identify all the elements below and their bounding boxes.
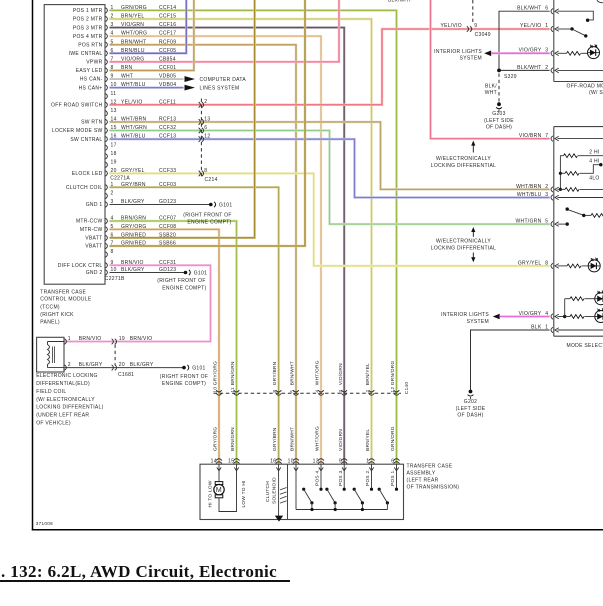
svg-text:8: 8 [204, 168, 207, 174]
svg-text:WHT: WHT [485, 90, 497, 96]
svg-text:20: 20 [119, 362, 125, 368]
wire CCF33 GRY/YEL pin20 to mode select switch pin8 [110, 173, 550, 265]
svg-text:1: 1 [68, 336, 71, 342]
svg-text:GRY/ORG: GRY/ORG [213, 361, 219, 385]
mode select pin1 internal wire [558, 329, 603, 331]
svg-text:G101: G101 [192, 365, 205, 371]
svg-text:GRN/ORG: GRN/ORG [390, 426, 396, 451]
svg-text:C214: C214 [205, 177, 218, 183]
svg-text:SW CNTRAL: SW CNTRAL [70, 137, 102, 143]
wire SSB20 GRN/RED pinB6 VBATT (off page top) [110, 0, 255, 238]
interior lights arrow (off-road) [434, 49, 491, 62]
svg-text:VIO/GRN: VIO/GRN [338, 363, 344, 385]
svg-text:2: 2 [204, 99, 207, 105]
svg-text:POS 1 MTR: POS 1 MTR [73, 8, 103, 14]
svg-text:19: 19 [111, 159, 117, 165]
svg-text:HI TO LOW: HI TO LOW [208, 480, 214, 507]
wire CCF03 GRY/BRN pinB1 to clutch solenoid [110, 187, 279, 464]
svg-text:OFF-ROAD MODE SWITCH: OFF-ROAD MODE SWITCH [567, 84, 603, 90]
svg-text:S329: S329 [504, 74, 517, 80]
position switch labels [315, 469, 397, 486]
wire BLK/WHT off-road pin6 [499, 11, 550, 70]
svg-text:ENGINE COMPT): ENGINE COMPT) [187, 220, 231, 226]
mode select switch box [554, 127, 603, 337]
mode select pin8 LED [588, 258, 600, 272]
motor label LOW TO HI [241, 480, 247, 507]
svg-text:12: 12 [390, 387, 396, 393]
svg-text:POS 3 MTR: POS 3 MTR [73, 25, 103, 31]
mode select pin3 internal wire [558, 197, 603, 199]
svg-text:VIO/GRN: VIO/GRN [338, 429, 344, 451]
svg-text:BRN/GRN: BRN/GRN [230, 427, 236, 451]
svg-text:TRANSFER CASE: TRANSFER CASE [407, 463, 453, 469]
svg-text:GRY/BRN: GRY/BRN [272, 427, 278, 451]
mode select rotary lever [566, 207, 603, 217]
connector C3049 [467, 0, 491, 38]
off-road switch illumination LED [588, 44, 600, 58]
svg-text:BLK: BLK [531, 324, 542, 330]
svg-text:13: 13 [204, 116, 210, 122]
ground G101 (first) [209, 202, 232, 209]
svg-text:MTR-CCW: MTR-CCW [76, 219, 103, 225]
TCCM connector C2271B pins and labels [58, 182, 177, 276]
off-road switch pin labels [517, 6, 548, 71]
svg-text:2: 2 [545, 65, 548, 71]
svg-text:ENGINE COMPT): ENGINE COMPT) [162, 285, 206, 291]
svg-text:BRN/WHT: BRN/WHT [290, 427, 296, 451]
clipped wire label at top edge [388, 0, 411, 4]
svg-text:C1681: C1681 [118, 372, 134, 378]
svg-text:(TCCM): (TCCM) [40, 305, 60, 311]
svg-text:17: 17 [111, 142, 117, 148]
mode select switch pin brackets [551, 136, 559, 333]
svg-text:COMPUTER DATA: COMPUTER DATA [200, 77, 247, 83]
svg-text:8: 8 [272, 390, 278, 393]
mode select pin8 LED resistor [558, 264, 589, 268]
svg-text:(LEFT SIDE: (LEFT SIDE [484, 118, 514, 124]
mode select pin4 wiring [558, 297, 595, 319]
svg-text:(RIGHT KICK: (RIGHT KICK [40, 312, 74, 318]
wire VIO/GRY off-road pin3 [491, 52, 549, 55]
svg-text:DIFFERENTIAL(ELD): DIFFERENTIAL(ELD) [36, 381, 90, 387]
svg-text:LOCKING DIFFERENTIAL: LOCKING DIFFERENTIAL [431, 246, 496, 252]
svg-text:POS 2 MTR: POS 2 MTR [73, 17, 103, 23]
svg-text:PANEL): PANEL) [40, 319, 60, 325]
svg-text:13: 13 [111, 108, 117, 114]
svg-text:VBATT: VBATT [85, 244, 102, 250]
svg-text:C2271A: C2271A [110, 176, 130, 182]
C140 lower wire labels and pins [211, 426, 396, 464]
off-road mode switch box [554, 0, 603, 82]
svg-text:VPWR: VPWR [86, 60, 102, 66]
off-road switch pin6 internal wire [558, 11, 594, 22]
svg-text:ASSEMBLY: ASSEMBLY [407, 470, 436, 476]
wire CCF15 BRN/YEL pin2 to transfer case pin1 [110, 19, 372, 464]
clutch solenoid coil [279, 464, 287, 519]
svg-text:C140: C140 [404, 382, 410, 395]
svg-text:HS CAN+: HS CAN+ [79, 85, 103, 91]
svg-text:BRN/VIO: BRN/VIO [130, 336, 153, 342]
svg-text:POS 3.: POS 3. [338, 469, 344, 486]
svg-text:371008: 371008 [36, 521, 53, 526]
svg-text:EASY LED: EASY LED [76, 68, 103, 74]
svg-text:LINES SYSTEM: LINES SYSTEM [200, 86, 240, 92]
svg-text:POS RTN: POS RTN [78, 42, 102, 48]
svg-text:8: 8 [111, 249, 114, 255]
svg-text:G203: G203 [492, 111, 505, 117]
svg-text:10: 10 [213, 387, 219, 393]
wire CCF07 BRN/GRN pinB4 to transfer case pin15 [110, 221, 237, 464]
svg-text:2: 2 [365, 390, 371, 393]
label YEL/VIO left of C3049 [440, 23, 462, 29]
diagram sheet number 371008 [36, 521, 53, 526]
motor label HI TO LOW [208, 480, 214, 507]
svg-text:WHT/ORG: WHT/ORG [315, 360, 321, 385]
svg-text:3: 3 [545, 192, 548, 198]
svg-text:FIELD COIL: FIELD COIL [36, 389, 66, 395]
wire CCF13 WHT/BLU pin16 to mode select switch pin3 [110, 139, 550, 197]
svg-text:(W/ ELECTRONICALLY: (W/ ELECTRONICALLY [36, 397, 95, 403]
W/ELD annotation 1 [431, 141, 496, 169]
svg-text:GND 2: GND 2 [86, 270, 103, 276]
wire RCF09 BRN/WHT pin5 to transfer case pin10 [110, 45, 297, 464]
ground G101 location text [183, 212, 231, 225]
ground G101 (third, ELD) [182, 365, 205, 372]
wire CCF32 WHT/GRN pin15 to mode select switch pin5 [110, 131, 550, 225]
wire BLK/WHT off-road pin2 [499, 69, 550, 71]
wire ELD pin2 BLK/GRY to ground G101 [65, 367, 183, 369]
svg-text:WHT/GRN: WHT/GRN [516, 219, 542, 225]
figure caption [1, 562, 277, 582]
connector label C2271A [110, 176, 130, 182]
connector C1681 [112, 336, 154, 378]
svg-text:BLK/WHT: BLK/WHT [517, 6, 541, 12]
wire GD123 BLK/GRY pinB3 to ground G101 [110, 204, 210, 206]
ELD field coil box [37, 337, 64, 372]
svg-text:LOCKING DIFFERENTIAL: LOCKING DIFFERENTIAL [431, 163, 496, 169]
wire VIO/GRY mode select pin4 [500, 315, 550, 318]
shift motor M [214, 464, 237, 511]
off-road switch illumination resistor [558, 51, 588, 55]
svg-text:ELOCK LED: ELOCK LED [72, 171, 103, 177]
svg-text:(UNDER LEFT REAR: (UNDER LEFT REAR [36, 413, 89, 419]
svg-text:HS CAN-: HS CAN- [80, 77, 103, 83]
svg-text:5: 5 [545, 219, 548, 225]
svg-text:BRN/GRN: BRN/GRN [230, 361, 236, 385]
off-road switch top-right arc fragment [597, 0, 603, 3]
svg-text:4LO: 4LO [589, 176, 599, 182]
svg-text:W/ELECTRONICALLY: W/ELECTRONICALLY [436, 238, 491, 244]
svg-text:3: 3 [338, 390, 344, 393]
mode select switch caption [567, 343, 603, 349]
wire CCF08 GRY/ORG pinB5 to transfer case pin14 [110, 229, 220, 464]
svg-text:LOCKING DIFFERENTIAL): LOCKING DIFFERENTIAL) [36, 405, 103, 411]
connector label C2271B [105, 276, 125, 282]
svg-text:CONTROL MODULE: CONTROL MODULE [40, 297, 92, 303]
wire CCF01 BRN pin8 EASY LED (off page top) [110, 0, 194, 70]
mode select resistor ladder [558, 149, 603, 191]
svg-text:12: 12 [204, 134, 210, 140]
svg-text:6: 6 [545, 6, 548, 12]
svg-text:WHT/BRN: WHT/BRN [516, 184, 542, 190]
TCCM module box [44, 5, 105, 285]
svg-text:INTERIOR LIGHTS: INTERIOR LIGHTS [441, 312, 489, 318]
svg-text:7: 7 [545, 133, 548, 139]
svg-text:BLK/WHT: BLK/WHT [388, 0, 411, 4]
svg-text:POS 1.: POS 1. [390, 469, 396, 486]
wire GD123 BLK/GRY pinB10 to ground G101 [110, 272, 185, 274]
svg-text:GRN/ORG: GRN/ORG [390, 361, 396, 386]
svg-text:G101: G101 [194, 270, 207, 276]
splice S329 [497, 69, 517, 81]
svg-text:(RIGHT FRONT OF: (RIGHT FRONT OF [157, 278, 205, 284]
svg-text:2: 2 [111, 191, 114, 197]
svg-text:OF VEHICLE): OF VEHICLE) [36, 421, 71, 427]
svg-text:6: 6 [204, 125, 207, 131]
svg-text:WHT/BLU: WHT/BLU [517, 192, 542, 198]
wire CCF05 BRN/BLU pin6 to IWE system (off page top) [110, 0, 187, 53]
svg-text:BRN/YEL: BRN/YEL [365, 363, 371, 385]
mode select switch pin labels [516, 133, 549, 330]
svg-text:LOW TO HI: LOW TO HI [241, 480, 247, 507]
svg-text:C3049: C3049 [475, 32, 491, 38]
svg-text:MODE SELECT SWITCH: MODE SELECT SWITCH [567, 343, 603, 349]
svg-text:POS 2.: POS 2. [365, 469, 371, 486]
off-road switch pin2 internal wire [558, 69, 603, 71]
ELD description text [36, 373, 103, 426]
svg-text:ENGINE COMPT): ENGINE COMPT) [162, 381, 206, 387]
mode select 4LO LED [595, 308, 603, 322]
svg-text:OF TRANSMISSION): OF TRANSMISSION) [407, 485, 460, 491]
C140 connector label [404, 382, 410, 395]
svg-text:(LEFT REAR: (LEFT REAR [407, 477, 439, 483]
off-road switch lever [558, 27, 588, 37]
svg-text:POS 4.: POS 4. [315, 469, 321, 486]
svg-text:4: 4 [315, 390, 321, 393]
clutch solenoid labels [265, 477, 278, 504]
svg-text:4 HI: 4 HI [589, 158, 599, 164]
wire VIO/BRN to mode select pin7 (from off page top) [431, 0, 550, 139]
W/ELD annotation 2 [431, 227, 496, 262]
wire CCF17 WHT/ORG pin4 to transfer case pin13 [110, 36, 322, 464]
svg-text:YEL/VIO: YEL/VIO [520, 23, 542, 29]
svg-text:MTR-CW: MTR-CW [80, 227, 103, 233]
svg-text:YEL/VIO: YEL/VIO [440, 23, 462, 29]
svg-text:1: 1 [545, 324, 548, 330]
svg-text:BLK/WHT: BLK/WHT [517, 65, 541, 71]
interior lights arrow (mode select) [441, 312, 500, 325]
svg-text:VIO/BRN: VIO/BRN [519, 133, 542, 139]
svg-text:19: 19 [119, 336, 125, 342]
svg-text:SOLENOID: SOLENOID [272, 477, 278, 504]
svg-text:SYSTEM: SYSTEM [460, 55, 482, 61]
svg-text:GRY/BRN: GRY/BRN [272, 361, 278, 385]
wire BLK mode select pin1 to ground G202 [471, 330, 550, 390]
clutch solenoid ground [275, 516, 283, 522]
off-road switch pin brackets [551, 9, 559, 74]
svg-text:G101: G101 [219, 202, 232, 208]
diagram page frame (left border) [32, 0, 34, 531]
svg-text:IWE CNTRAL: IWE CNTRAL [69, 51, 103, 57]
svg-text:OFF ROAD SWITCH: OFF ROAD SWITCH [51, 102, 103, 108]
connector C140 (dashed inline) [214, 390, 402, 395]
svg-text:(RIGHT FRONT OF: (RIGHT FRONT OF [160, 374, 208, 380]
svg-text:OF DASH): OF DASH) [486, 124, 512, 130]
svg-text:ELECTRONIC LOCKING: ELECTRONIC LOCKING [36, 373, 98, 379]
svg-text:GRY/YEL: GRY/YEL [518, 260, 542, 266]
svg-text:M: M [216, 487, 222, 494]
connector C214 (dashed inline) [199, 99, 218, 184]
wire CCF16 VIO/GRN pin3 to transfer case pin9 [110, 28, 345, 465]
svg-text:SW RTN: SW RTN [81, 120, 103, 126]
svg-text:(LEFT SIDE: (LEFT SIDE [456, 406, 486, 412]
ground G202 [456, 390, 486, 419]
mode select pin5 stub [558, 222, 569, 225]
svg-text:BRN/WHT: BRN/WHT [290, 361, 296, 385]
ground G203 [484, 102, 514, 130]
C140 upper wire labels and pins [213, 360, 397, 392]
off-road mode switch caption [567, 84, 603, 97]
svg-text:W/ELECTRONICALLY: W/ELECTRONICALLY [436, 156, 491, 162]
wire BLK/WHT to ground G203 (dashed) [485, 74, 499, 102]
TCCM connector C2271A pins and labels [51, 5, 176, 177]
computer data lines arrows and text [185, 76, 247, 91]
svg-text:18: 18 [111, 151, 117, 157]
svg-text:DIFF LOCK CTRL: DIFF LOCK CTRL [58, 263, 103, 269]
svg-text:2: 2 [545, 184, 548, 190]
svg-text:11: 11 [111, 91, 117, 97]
svg-text:8: 8 [545, 260, 548, 266]
TCCM description text [40, 290, 92, 326]
svg-text:LOCKER MODE SW: LOCKER MODE SW [52, 128, 103, 134]
caption underline [0, 580, 290, 582]
wire RCF13 WHT/BRN pin14 to mode select switch pin2 [110, 122, 550, 189]
svg-text:11: 11 [230, 387, 236, 393]
svg-text:CLUTCH COIL: CLUTCH COIL [66, 185, 103, 191]
svg-text:GRY/ORG: GRY/ORG [213, 427, 219, 451]
svg-text:CLUTCH: CLUTCH [265, 481, 271, 502]
svg-text:SYSTEM: SYSTEM [467, 319, 489, 325]
label YEL/VIO pin1 [520, 23, 548, 29]
svg-text:WHT/ORG: WHT/ORG [315, 426, 321, 451]
wire CCF31 BRN/VIO pinB9 to ELD field coil pin1 [65, 265, 211, 341]
ground G101 third location text [160, 374, 208, 387]
mode select pin7 internal wire [558, 138, 603, 140]
wire CCF11 YEL/VIO pin12 to off-road mode switch pin1 [110, 29, 550, 105]
svg-text:9: 9 [474, 23, 477, 29]
svg-text:(W/ SVT): (W/ SVT) [589, 90, 603, 96]
ELD pin brackets and labels [65, 336, 103, 370]
ground G101 second location text [157, 278, 206, 291]
svg-text:BRN/YEL: BRN/YEL [365, 429, 371, 451]
svg-text:BLK/: BLK/ [485, 84, 497, 90]
wire VDB05 WHT pin9 HS CAN- [110, 78, 184, 80]
diagram page frame (bottom border) [32, 529, 603, 531]
wire VDB04 WHT/BLU pin10 HS CAN+ [110, 86, 184, 89]
svg-text:INTERIOR LIGHTS: INTERIOR LIGHTS [434, 49, 482, 55]
svg-text:5: 5 [290, 390, 296, 393]
transfer case assembly text [407, 463, 460, 490]
svg-text:BLK/GRY: BLK/GRY [130, 362, 154, 368]
mode select 4HI LED [595, 291, 603, 305]
svg-text:TRANSFER CASE: TRANSFER CASE [40, 290, 86, 296]
svg-text:G202: G202 [464, 399, 477, 405]
svg-text:OF DASH): OF DASH) [457, 413, 483, 419]
svg-text:C2271B: C2271B [105, 276, 125, 282]
svg-text:VBATT: VBATT [85, 236, 102, 242]
svg-text:(RIGHT FRONT OF: (RIGHT FRONT OF [183, 212, 231, 218]
ground G101 (second) [184, 270, 207, 277]
svg-text:1: 1 [545, 23, 548, 29]
ELD field coil symbol [48, 342, 65, 368]
svg-text:BRN/VIO: BRN/VIO [79, 336, 102, 342]
svg-text:POS 4 MTR: POS 4 MTR [73, 34, 103, 40]
svg-text:2 HI: 2 HI [589, 149, 599, 155]
wire SSB66 GRN/RED pinB7 VBATT (off page top) [110, 0, 306, 246]
wire CCF14 GRN/ORG pin1 to transfer case pin6 [110, 10, 397, 464]
transfer case entry connectors [216, 459, 400, 471]
position switch assembly [296, 464, 398, 511]
svg-text:GND 1: GND 1 [86, 202, 103, 208]
wire CB854 VIO/ORG pin7 VPWR (off page top) [110, 0, 340, 62]
transfer case assembly box [200, 464, 404, 519]
